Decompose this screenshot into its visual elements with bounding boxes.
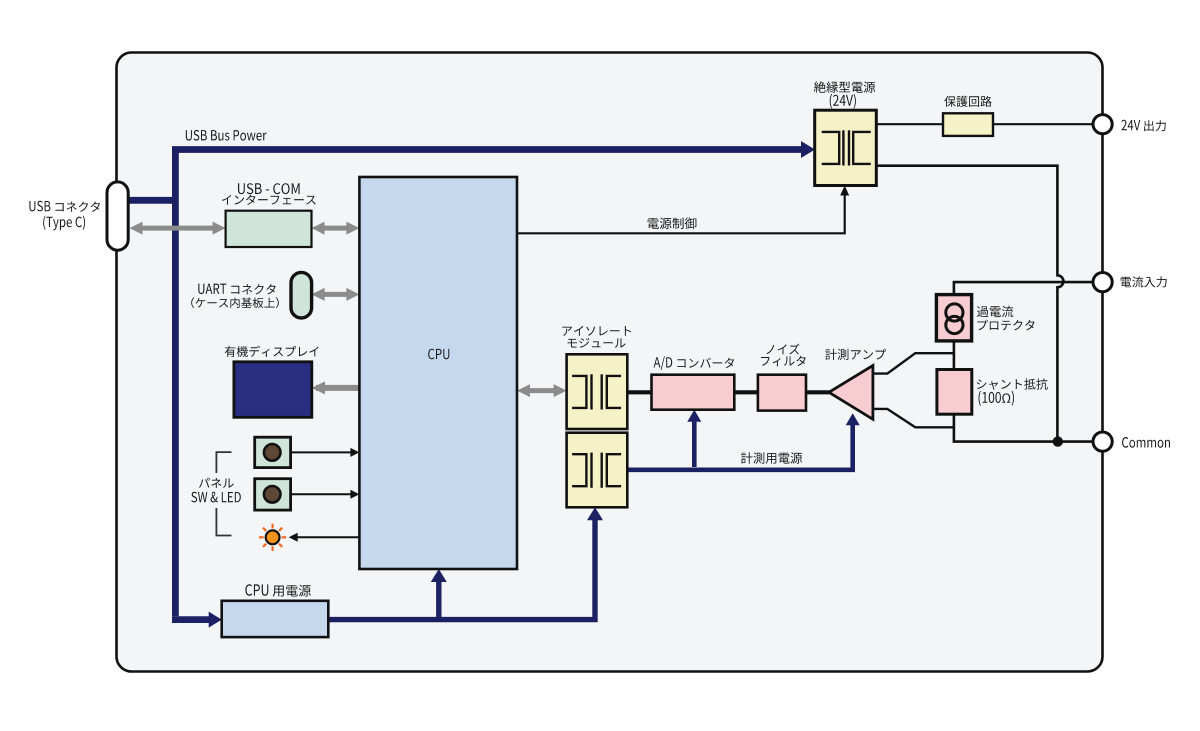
label USB Bus Power (186, 130, 267, 141)
wire shunt to common (954, 414, 1094, 441)
wire ADC to noise filter (734, 390, 758, 394)
terminal current input (1093, 273, 1112, 292)
wire measurement power (627, 425, 852, 470)
LED (259, 524, 286, 551)
wire protector to shunt (953, 341, 956, 370)
arrow CPU to display (316, 385, 359, 391)
label shunt line1 (977, 379, 1048, 390)
label isolated supply line2 (830, 94, 856, 109)
protection circuit box (943, 113, 993, 136)
shunt resistor box (937, 370, 972, 415)
isolate module lower symbol (572, 453, 621, 488)
label USB-COM line1 (238, 183, 300, 194)
wire USB bus power trunk (175, 150, 801, 617)
label CPU power (245, 584, 311, 597)
label protection circuit (944, 96, 991, 107)
arrow CPU to LED (296, 536, 359, 538)
wire amp lower input (873, 409, 954, 427)
label protector line1 (977, 306, 1013, 317)
terminal common (1093, 432, 1112, 451)
wire supply to protection circuit (876, 123, 943, 125)
USB-COM interface box (226, 211, 312, 247)
wire CPU power branch to CPU (436, 581, 441, 617)
noise filter box (758, 375, 806, 411)
overcurrent protector box (936, 295, 971, 341)
switch S1 (255, 437, 291, 467)
junction node (1053, 436, 1063, 446)
label UART line1 (198, 284, 275, 295)
arrow UART to CPU (312, 288, 360, 301)
label amp (825, 349, 886, 360)
arrow USB connector to USB-COM (130, 222, 226, 235)
isolated power supply box (815, 110, 877, 185)
arrow switch2 to CPU (291, 493, 351, 495)
isolate module lower box (567, 433, 628, 508)
USB connector pill (107, 182, 128, 250)
CPU power supply box (222, 601, 329, 637)
label UART line2 (191, 297, 279, 308)
label current input (1121, 276, 1167, 287)
wire bus to CPU power supply (172, 616, 209, 623)
label USB connector line1 (29, 201, 100, 212)
overcurrent protector symbol (946, 304, 963, 321)
label isolate module line2 (568, 338, 626, 348)
isolated power supply symbol (822, 130, 871, 165)
label shunt line2 (979, 391, 1015, 406)
wire isolate module to ADC (627, 390, 651, 394)
label noise filter line1 (767, 344, 800, 355)
device enclosure (117, 53, 1103, 672)
label isolate module line1 (562, 326, 631, 336)
terminal 24V output (1093, 115, 1112, 134)
wire amp upper input (873, 353, 954, 373)
panel bracket (216, 452, 231, 473)
arrow USB-COM to CPU (312, 222, 360, 235)
label measurement power (741, 452, 802, 463)
label ADC (654, 356, 734, 370)
wire current input to protector (954, 282, 1094, 295)
label protector line2 (978, 320, 1035, 331)
amp triangle (829, 366, 873, 420)
wire USB connector to bus (127, 197, 178, 204)
wire noise filter to amp (806, 390, 830, 394)
label panel line2 (191, 492, 241, 503)
label USB-COM line2 (222, 195, 316, 205)
switch S2 (255, 479, 291, 510)
wire measurement power branch to ADC (692, 421, 697, 467)
label isolated supply line1 (814, 81, 875, 93)
UART connector pill (291, 272, 312, 318)
isolate module upper box (567, 354, 628, 429)
arrow switch1 to CPU (291, 451, 351, 453)
label CPU (428, 349, 449, 360)
label noise filter line2 (761, 356, 806, 367)
display box (234, 362, 312, 418)
ADC box (652, 375, 735, 410)
wire supply return with hop (876, 166, 1063, 442)
isolate module upper symbol (572, 374, 621, 409)
arrow CPU to isolate module (517, 384, 567, 397)
label USB connector line2 (43, 216, 85, 231)
label display (225, 346, 319, 357)
label power control (648, 218, 697, 230)
wire power control (517, 195, 845, 233)
label common (1122, 437, 1170, 448)
wire CPU power distribution (328, 519, 595, 620)
CPU box (359, 177, 517, 569)
wire protection circuit to 24V terminal (993, 123, 1094, 125)
label 24V output (1121, 120, 1165, 131)
label panel line1 (199, 478, 234, 488)
